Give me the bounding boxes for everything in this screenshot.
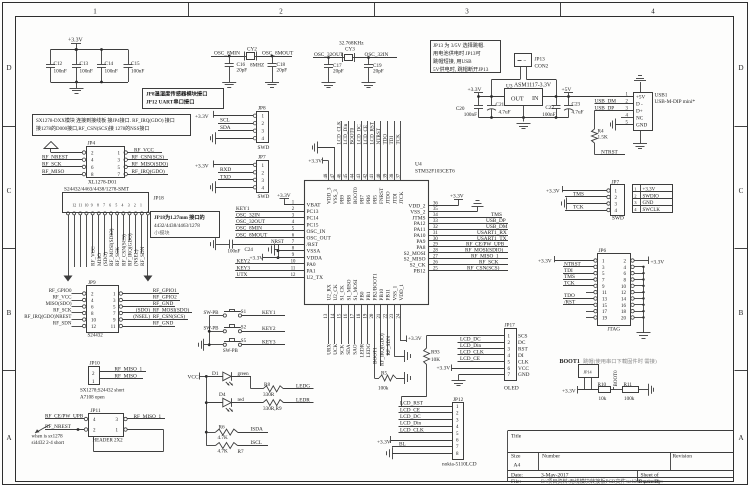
svg-text:100nF: 100nF — [464, 112, 477, 118]
svg-text:100nF: 100nF — [54, 69, 67, 75]
svg-text:C22: C22 — [545, 105, 554, 111]
svg-text:Date:: Date: — [511, 473, 523, 479]
svg-text:RF_NREST: RF_NREST — [42, 155, 69, 161]
svg-text:+3.3V: +3.3V — [437, 366, 451, 372]
svg-text:LCD_Din: LCD_Din — [343, 123, 349, 144]
svg-text:4432/4438/4463/1278: 4432/4438/4463/1278 — [154, 223, 200, 229]
svg-text:VSS_3: VSS_3 — [333, 189, 339, 204]
svg-text:RF_GND: RF_GND — [153, 301, 174, 307]
svg-text:SDA: SDA — [346, 344, 352, 355]
svg-text:BOOT0: BOOT0 — [614, 370, 619, 387]
svg-text:11: 11 — [111, 325, 116, 330]
svg-text:PB1: PB1 — [366, 291, 372, 300]
svg-text:+3.3V: +3.3V — [408, 336, 422, 342]
svg-text:12: 12 — [621, 291, 627, 296]
svg-text:Drawn By:: Drawn By: — [639, 479, 664, 485]
svg-text:A7108 open: A7108 open — [80, 396, 105, 401]
svg-text:VCC: VCC — [188, 375, 199, 381]
svg-text:1: 1 — [140, 204, 142, 208]
svg-text:VDD_1: VDD_1 — [399, 284, 405, 301]
svg-text:R7: R7 — [238, 449, 244, 455]
svg-text:KEY2: KEY2 — [237, 259, 251, 265]
svg-text:30: 30 — [433, 237, 438, 242]
svg-text:PB5: PB5 — [373, 195, 379, 204]
svg-text:PB9: PB9 — [340, 195, 346, 204]
svg-text:+3.3V: +3.3V — [538, 258, 552, 264]
svg-text:5V供电时, 跳帽断开JP13: 5V供电时, 跳帽断开JP13 — [433, 65, 489, 73]
svg-text:SWD: SWD — [258, 194, 270, 200]
svg-text:LCD_CE: LCD_CE — [400, 407, 420, 413]
svg-text:+3.3V: +3.3V — [546, 188, 560, 194]
svg-text:S1_MOSI: S1_MOSI — [353, 279, 359, 300]
svg-text:RF_GPIO2: RF_GPIO2 — [153, 295, 177, 301]
svg-text:C: C — [739, 187, 744, 195]
svg-text:11: 11 — [602, 291, 607, 296]
svg-text:OUT: OUT — [511, 96, 524, 103]
svg-text:STM32F103CET6: STM32F103CET6 — [415, 169, 455, 175]
svg-text:14: 14 — [621, 297, 627, 302]
svg-text:SW-PB: SW-PB — [204, 327, 220, 332]
svg-text:D+: D+ — [636, 109, 643, 115]
svg-text:4.7K: 4.7K — [218, 448, 228, 454]
svg-text:10k: 10k — [599, 396, 607, 402]
svg-text:PB10: PB10 — [379, 289, 385, 301]
svg-text:RF_CSN(SCS): RF_CSN(SCS) — [153, 313, 186, 320]
svg-text:LEDR: LEDR — [296, 397, 310, 403]
svg-text:UCK: UCK — [333, 344, 339, 355]
svg-text:TCK: TCK — [564, 280, 575, 286]
svg-text:/RST: /RST — [564, 299, 576, 305]
svg-text:RF_CSN(SCS): RF_CSN(SCS) — [120, 234, 127, 266]
svg-text:21: 21 — [377, 313, 382, 318]
svg-text:3-May-2017: 3-May-2017 — [541, 473, 569, 479]
svg-text:(NSEL): (NSEL) — [133, 249, 140, 266]
svg-text:S1: S1 — [241, 310, 247, 315]
svg-text:RXD: RXD — [220, 167, 231, 173]
svg-text:19: 19 — [602, 316, 608, 321]
svg-text:JP17: JP17 — [505, 323, 516, 329]
svg-text:LCD_CLK: LCD_CLK — [337, 121, 343, 145]
svg-text:TDO: TDO — [564, 293, 575, 299]
svg-text:JP8温湿度传感器模块接口: JP8温湿度传感器模块接口 — [146, 90, 208, 98]
svg-text:RF_MISO: RF_MISO — [42, 169, 65, 175]
svg-text:BOOT0: BOOT0 — [350, 127, 356, 144]
svg-text:D4: D4 — [219, 392, 226, 398]
svg-text:C14: C14 — [105, 61, 114, 67]
svg-text:RF_IRQ(GDO)NREST: RF_IRQ(GDO)NREST — [24, 315, 71, 320]
svg-text:+3.3V: +3.3V — [68, 38, 84, 44]
svg-text:S24432: S24432 — [88, 334, 104, 339]
svg-text:20pF: 20pF — [373, 69, 384, 75]
svg-text:KEY3: KEY3 — [237, 265, 251, 271]
svg-text:RF_MISO_1: RF_MISO_1 — [134, 414, 162, 420]
svg-text:100k: 100k — [378, 386, 389, 392]
svg-text:nokia-5110LCD: nokia-5110LCD — [442, 462, 477, 468]
svg-text:D: D — [738, 64, 743, 72]
svg-text:JP8: JP8 — [258, 105, 266, 111]
svg-text:10: 10 — [621, 285, 627, 290]
svg-text:JP6: JP6 — [599, 248, 607, 254]
svg-text:+3.3V: +3.3V — [195, 163, 209, 169]
svg-text:PA1: PA1 — [307, 269, 316, 275]
svg-text:IN: IN — [532, 95, 539, 102]
svg-text:100nF: 100nF — [105, 69, 118, 75]
svg-text:14: 14 — [331, 313, 336, 318]
svg-text:100nF: 100nF — [131, 69, 144, 75]
svg-text:OSC_OUT: OSC_OUT — [307, 236, 332, 242]
svg-text:17: 17 — [602, 310, 608, 315]
svg-text:CON2: CON2 — [535, 64, 549, 70]
svg-text:OSC_32IN: OSC_32IN — [236, 213, 260, 219]
svg-text:+3.3V: +3.3V — [277, 193, 291, 199]
svg-text:LCD_CLK: LCD_CLK — [400, 427, 424, 433]
svg-text:100nF: 100nF — [228, 250, 241, 255]
svg-text:Revision: Revision — [673, 454, 693, 460]
svg-text:RF_SCK: RF_SCK — [53, 309, 72, 314]
svg-text:18: 18 — [621, 310, 627, 315]
svg-text:LCD_Din: LCD_Din — [400, 421, 422, 427]
svg-text:D -: D - — [636, 102, 643, 108]
svg-text:3: 3 — [465, 8, 469, 16]
svg-text:S5: S5 — [241, 339, 247, 344]
svg-text:HEADER 2X2: HEADER 2X2 — [93, 439, 124, 444]
svg-text:4: 4 — [651, 8, 655, 16]
svg-text:R10: R10 — [598, 382, 607, 388]
svg-text:NC: NC — [636, 116, 644, 122]
svg-text:330R: 330R — [263, 392, 275, 398]
svg-text:U3: U3 — [506, 84, 513, 90]
svg-text:GND: GND — [518, 372, 530, 378]
svg-text:47: 47 — [331, 173, 336, 178]
svg-text:100k: 100k — [624, 396, 635, 402]
svg-text:RF_GND: RF_GND — [153, 321, 174, 327]
svg-text:A: A — [738, 434, 743, 442]
svg-text:C24: C24 — [245, 248, 254, 253]
svg-text:JP10: JP10 — [90, 361, 101, 367]
svg-text:CY2: CY2 — [247, 47, 257, 53]
svg-text:RF_IRQ(GDO): RF_IRQ(GDO) — [132, 168, 165, 175]
svg-text:SCK: SCK — [340, 344, 346, 354]
svg-text:TXD: TXD — [220, 174, 231, 180]
svg-text:(SDO): (SDO) — [136, 307, 150, 314]
svg-text:VBAT: VBAT — [307, 203, 322, 209]
svg-text:JP18为1.27mm 接口的: JP18为1.27mm 接口的 — [154, 213, 205, 221]
svg-text:URX: URX — [326, 344, 332, 355]
svg-text:SWD: SWD — [612, 216, 624, 222]
svg-text:LEDG: LEDG — [296, 384, 310, 390]
svg-text:LEDG: LEDG — [366, 343, 372, 357]
svg-text:NRST: NRST — [271, 240, 284, 245]
svg-text:LCD_DC: LCD_DC — [460, 337, 481, 343]
svg-text:USB-M-DIP mini*: USB-M-DIP mini* — [655, 99, 696, 105]
svg-text:16: 16 — [621, 304, 627, 309]
svg-text:C15: C15 — [131, 61, 140, 67]
svg-text:JP13 为 3/5V 选择跳帽.: JP13 为 3/5V 选择跳帽. — [433, 41, 485, 49]
svg-text:4.7uF: 4.7uF — [572, 110, 584, 116]
svg-text:PB12: PB12 — [414, 269, 426, 275]
svg-text:S1_MISO: S1_MISO — [346, 279, 352, 300]
svg-text:PA0: PA0 — [307, 262, 316, 268]
svg-text:JP4: JP4 — [88, 141, 96, 147]
svg-text:C: C — [7, 187, 12, 195]
svg-text:小模块: 小模块 — [154, 229, 170, 237]
svg-text:U2_RX: U2_RX — [327, 284, 333, 300]
svg-text:PC13: PC13 — [307, 209, 319, 215]
svg-text:ISDA: ISDA — [251, 427, 264, 433]
svg-text:DI: DI — [518, 353, 524, 359]
svg-text:RF_MOSI(SDO): RF_MOSI(SDO) — [153, 307, 190, 314]
svg-text:RF_SDN: RF_SDN — [386, 336, 392, 356]
svg-text:SWCLK: SWCLK — [643, 208, 661, 213]
svg-text:B: B — [7, 309, 12, 317]
svg-text:TDI: TDI — [564, 268, 573, 274]
svg-text:+3.3V: +3.3V — [308, 159, 322, 165]
svg-text:SCS: SCS — [518, 334, 527, 340]
svg-text:KEY1: KEY1 — [262, 310, 276, 316]
svg-text:LCD_CE: LCD_CE — [460, 356, 480, 362]
svg-text:SWDIO: SWDIO — [643, 194, 660, 199]
svg-text:U4: U4 — [415, 162, 422, 168]
svg-text:GND: GND — [643, 201, 654, 206]
svg-text:1.5K: 1.5K — [598, 135, 608, 141]
svg-text:RF_GPIO1: RF_GPIO1 — [153, 288, 177, 294]
svg-text:JP12 UART串口接口: JP12 UART串口接口 — [146, 98, 195, 106]
svg-text:+3.3V: +3.3V — [195, 114, 209, 120]
svg-text:12: 12 — [72, 204, 76, 208]
svg-text:4.7uF: 4.7uF — [499, 110, 511, 116]
svg-text:PC14: PC14 — [307, 216, 319, 222]
svg-text:TCK: TCK — [396, 134, 402, 145]
svg-text:/RST: /RST — [307, 242, 319, 248]
svg-text:BOOT0: BOOT0 — [353, 187, 359, 204]
svg-text:Title: Title — [511, 434, 522, 440]
svg-text:LCD_RST: LCD_RST — [400, 401, 424, 407]
svg-text:JTDO: JTDO — [386, 191, 392, 204]
svg-text:CLK: CLK — [518, 359, 529, 365]
svg-text:C21: C21 — [496, 102, 505, 108]
svg-text:VSSA: VSSA — [307, 249, 321, 255]
svg-text:6: 6 — [109, 204, 111, 208]
svg-text:1: 1 — [93, 8, 97, 16]
svg-text:MISO(SDO): MISO(SDO) — [46, 302, 72, 307]
svg-text:PB2/BOOT1: PB2/BOOT1 — [373, 273, 379, 301]
svg-text:PB6: PB6 — [366, 195, 372, 204]
svg-text:TMS: TMS — [573, 192, 584, 198]
svg-text:R8: R8 — [264, 382, 270, 388]
svg-text:8: 8 — [97, 204, 99, 208]
svg-text:OSC_8MOUT: OSC_8MOUT — [262, 51, 294, 57]
svg-text:ISCL: ISCL — [251, 440, 262, 446]
svg-text:4: 4 — [122, 204, 124, 208]
svg-text:JP9: JP9 — [88, 280, 96, 286]
svg-text:USB1: USB1 — [655, 93, 668, 99]
svg-text:R11: R11 — [624, 382, 633, 388]
svg-text:RF_CSN(SCS): RF_CSN(SCS) — [467, 264, 500, 271]
svg-text:用电池供电时 JP13可: 用电池供电时 JP13可 — [433, 49, 481, 57]
svg-text:VDDA: VDDA — [307, 255, 323, 261]
svg-text:S24432/4463/4438/1278-SMT: S24432/4463/4438/1278-SMT — [64, 187, 130, 193]
svg-text:OSC_32OUT: OSC_32OUT — [236, 219, 266, 225]
svg-text:RF_SCK: RF_SCK — [115, 247, 121, 266]
svg-text:U2_CK: U2_CK — [333, 284, 339, 300]
svg-text:3: 3 — [128, 204, 130, 208]
svg-text:UTX: UTX — [237, 272, 248, 278]
svg-text:20pF: 20pF — [333, 69, 344, 75]
svg-text:MISO: MISO — [97, 253, 103, 266]
svg-text:CY3: CY3 — [345, 46, 355, 52]
svg-text:JTAG: JTAG — [608, 327, 621, 333]
svg-text:RF_SCK: RF_SCK — [42, 162, 62, 168]
svg-text:+3.3V: +3.3V — [643, 188, 656, 193]
svg-text:RF_MISO: RF_MISO — [115, 373, 138, 379]
svg-text:8MHZ: 8MHZ — [250, 62, 264, 68]
svg-text:KEY2: KEY2 — [262, 326, 276, 332]
svg-text:SCL: SCL — [220, 118, 230, 124]
svg-text:JP11: JP11 — [91, 408, 101, 414]
svg-text:RST: RST — [518, 347, 528, 353]
svg-text:SX1278;S24432 short: SX1278;S24432 short — [80, 389, 125, 394]
svg-text:C23: C23 — [572, 102, 581, 108]
svg-text:BOOT1: BOOT1 — [372, 347, 378, 364]
svg-text:LEDR: LEDR — [359, 343, 365, 357]
svg-text:DC: DC — [518, 340, 526, 346]
svg-text:LCD_RST: LCD_RST — [369, 121, 375, 144]
svg-text:S1_CK: S1_CK — [340, 285, 346, 301]
svg-text:LCD_DC: LCD_DC — [400, 414, 421, 420]
svg-text:JP18: JP18 — [154, 196, 165, 202]
svg-text:JP7: JP7 — [612, 180, 620, 186]
svg-text:C12: C12 — [54, 61, 63, 67]
svg-text:20pF: 20pF — [237, 68, 248, 74]
svg-text:JP14: JP14 — [584, 370, 593, 375]
svg-text:LCD_CLK: LCD_CLK — [460, 350, 484, 356]
svg-text:U2_TX: U2_TX — [307, 275, 324, 281]
svg-text:PC15: PC15 — [307, 222, 319, 228]
svg-text:RF_SDN: RF_SDN — [140, 246, 146, 266]
svg-text:2: 2 — [134, 204, 136, 208]
svg-text:11: 11 — [79, 204, 83, 208]
svg-text:SAO: SAO — [353, 344, 359, 355]
svg-text:12: 12 — [91, 325, 97, 330]
svg-text:Sheet of: Sheet of — [641, 472, 659, 479]
svg-text:VCC: VCC — [518, 366, 529, 372]
svg-text:PB8: PB8 — [346, 195, 352, 204]
svg-text:TMS: TMS — [564, 274, 575, 280]
svg-text:A: A — [6, 434, 11, 442]
svg-text:RF_VCC: RF_VCC — [91, 246, 97, 266]
svg-text:10: 10 — [85, 204, 89, 208]
svg-text:JP13: JP13 — [535, 57, 546, 63]
svg-text:LCD_CE: LCD_CE — [363, 125, 369, 145]
svg-text:+3.3V: +3.3V — [450, 194, 464, 200]
svg-text:5: 5 — [115, 204, 117, 208]
svg-text:跳帽短接, 用USB: 跳帽短接, 用USB — [433, 57, 472, 65]
svg-text:OSC_8MOUT: OSC_8MOUT — [236, 232, 268, 238]
svg-text:KEY1: KEY1 — [236, 206, 250, 212]
svg-text:PB0: PB0 — [359, 291, 365, 300]
svg-text:BL: BL — [399, 441, 406, 447]
svg-text:OSC_8MIN: OSC_8MIN — [236, 226, 262, 232]
svg-text:D: D — [6, 64, 11, 72]
svg-text:JTCK: JTCK — [399, 191, 405, 204]
svg-text:RF_IRQ(GDO): RF_IRQ(GDO) — [127, 233, 134, 266]
svg-text:JP12: JP12 — [453, 397, 464, 403]
svg-text:TDO: TDO — [383, 134, 389, 145]
svg-text:~: ~ — [524, 59, 527, 64]
svg-text:R93: R93 — [431, 350, 440, 356]
svg-text:ASM1117-3.3V: ASM1117-3.3V — [514, 83, 552, 89]
svg-text:跳帽(使用串口下载固件时 需接): 跳帽(使用串口下载固件时 需接) — [583, 357, 657, 365]
svg-text:VDD_3: VDD_3 — [327, 187, 333, 204]
svg-text:+3.3V: +3.3V — [562, 389, 576, 395]
svg-text:(SDO): (SDO) — [102, 252, 109, 266]
svg-text:JTDI: JTDI — [392, 193, 398, 204]
svg-text:B: B — [739, 309, 744, 317]
svg-text:si4432 2-4 short: si4432 2-4 short — [32, 441, 65, 446]
svg-text:10K: 10K — [431, 357, 440, 363]
svg-text:LCD_DC: LCD_DC — [356, 124, 362, 145]
svg-text:TDI: TDI — [389, 136, 395, 145]
svg-text:NTRST: NTRST — [564, 261, 582, 267]
svg-text:20pF: 20pF — [277, 68, 288, 74]
svg-text:GND: GND — [636, 123, 647, 129]
svg-text:RF_GPIO0: RF_GPIO0 — [49, 289, 72, 294]
svg-text:XL1278-D01: XL1278-D01 — [88, 180, 117, 186]
svg-text:4.7K: 4.7K — [218, 435, 228, 441]
svg-text:Size: Size — [511, 454, 521, 460]
svg-text:D1: D1 — [212, 371, 219, 377]
svg-text:RF_SDN: RF_SDN — [53, 322, 72, 327]
svg-text:RF_IRQ(GDO): RF_IRQ(GDO) — [378, 333, 385, 366]
svg-text:(NSEL): (NSEL) — [133, 313, 150, 320]
svg-text:+5V: +5V — [636, 95, 646, 101]
svg-text:File:: File: — [511, 479, 522, 485]
svg-text:C13: C13 — [80, 61, 89, 67]
svg-text:SWD: SWD — [258, 145, 270, 151]
svg-text:7: 7 — [103, 204, 105, 208]
svg-text:LCD_Din: LCD_Din — [460, 343, 482, 349]
svg-text:VSS_1: VSS_1 — [392, 285, 398, 300]
svg-text:2: 2 — [279, 8, 283, 16]
svg-text:A4: A4 — [514, 463, 521, 469]
svg-text:100nF: 100nF — [80, 69, 93, 75]
svg-text:10: 10 — [291, 260, 296, 265]
svg-text:9: 9 — [91, 204, 93, 208]
svg-text:15: 15 — [602, 304, 608, 309]
svg-text:when is sx1278: when is sx1278 — [32, 435, 64, 440]
svg-text:13: 13 — [602, 297, 608, 302]
svg-text:RF_VCC: RF_VCC — [53, 296, 73, 301]
svg-text:PB11: PB11 — [386, 289, 392, 301]
svg-text:TCK: TCK — [573, 205, 584, 211]
svg-text:PB7: PB7 — [359, 195, 365, 204]
svg-text:S2: S2 — [241, 326, 247, 331]
svg-text:Number: Number — [542, 454, 560, 460]
svg-text:NTRST: NTRST — [376, 127, 382, 144]
svg-text:40: 40 — [377, 173, 382, 178]
svg-text:+3.3V: +3.3V — [377, 440, 391, 446]
svg-text:FNRST: FNRST — [379, 187, 385, 204]
svg-text:OSC_8MIN: OSC_8MIN — [214, 51, 240, 57]
svg-text:OSC_IN: OSC_IN — [307, 229, 326, 235]
svg-text:RF_MOSI(SDIO): RF_MOSI(SDIO) — [108, 228, 115, 266]
svg-text:OLED: OLED — [504, 386, 519, 392]
svg-text:RF_MISO_1: RF_MISO_1 — [115, 366, 143, 372]
svg-text:KEY3: KEY3 — [262, 339, 276, 345]
svg-text:10: 10 — [91, 319, 97, 324]
svg-text:SX1278-DXX模块 连接到接线板 接JP4接口. RF: SX1278-DXX模块 连接到接线板 接JP4接口. RF_IRQ(GDO) … — [36, 117, 175, 124]
svg-text:JP7: JP7 — [258, 155, 266, 161]
